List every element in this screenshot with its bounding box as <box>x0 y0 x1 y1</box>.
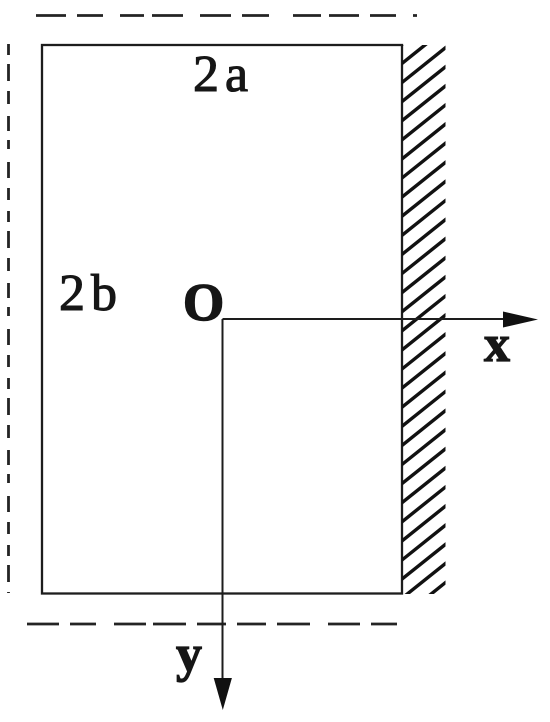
svg-text:2a: 2a <box>193 46 254 103</box>
x axis arrowhead <box>503 312 538 328</box>
x axis <box>223 318 531 320</box>
svg-text:O: O <box>183 274 224 332</box>
hatched clamped edge <box>398 0 450 640</box>
top dashed boundary line <box>36 14 417 17</box>
y axis <box>222 319 224 700</box>
bottom dashed boundary line <box>27 623 409 626</box>
y axis arrowhead <box>214 678 232 710</box>
svg-text:2b: 2b <box>59 265 123 322</box>
left dashed boundary line <box>7 44 10 593</box>
svg-text:x: x <box>484 316 510 373</box>
plate rectangle <box>42 45 402 594</box>
svg-text:y: y <box>176 626 202 683</box>
